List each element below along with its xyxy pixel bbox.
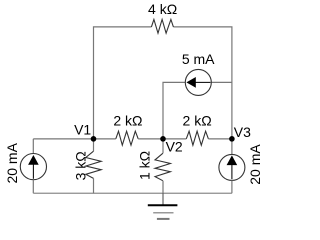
wire middle rail right segment (R 2k to V3) xyxy=(208,138,232,140)
wire right branch (V3 to right source) xyxy=(231,139,233,155)
ground symbol xyxy=(148,204,178,206)
current source I 5mA arrow (pointing left) xyxy=(195,81,211,83)
svg-text:V3: V3 xyxy=(234,124,251,140)
current source I 20mA right circle xyxy=(219,154,245,180)
resistor R 1k stub bottom xyxy=(162,181,164,194)
svg-text:1 kΩ: 1 kΩ xyxy=(137,151,153,180)
resistor R 4k (top) xyxy=(151,19,173,33)
current source I 20mA left arrow (pointing up) xyxy=(32,164,34,179)
wire right branch bottom (source to bottom rail) xyxy=(231,180,233,193)
node V1 junction dot xyxy=(91,136,97,142)
resistor R 2k (right, V2-V3) xyxy=(186,131,208,145)
wire 5 mA branch (V2 up and over to right rail) xyxy=(163,82,232,138)
node V3 junction dot xyxy=(229,136,235,142)
svg-text:2 kΩ: 2 kΩ xyxy=(183,113,212,129)
svg-text:5 mA: 5 mA xyxy=(182,51,215,67)
svg-text:20 mA: 20 mA xyxy=(4,142,20,183)
wire left branch bottom (source to bottom rail) xyxy=(32,180,34,194)
svg-text:3 kΩ: 3 kΩ xyxy=(73,151,89,180)
svg-text:V2: V2 xyxy=(166,139,183,155)
current source I 20mA right arrow (pointing up) xyxy=(231,164,233,179)
svg-text:4 kΩ: 4 kΩ xyxy=(148,1,177,17)
resistor R 2k (left, V1-V2) xyxy=(116,131,138,145)
wire bottom rail xyxy=(33,192,232,194)
wire middle rail center segment (R 2k to V2 to R 2k) xyxy=(138,138,186,140)
svg-text:2 kΩ: 2 kΩ xyxy=(113,113,142,129)
node V2 junction dot xyxy=(160,136,166,142)
ground stub xyxy=(162,193,164,205)
resistor R 3k (vertical below V1) xyxy=(86,151,101,178)
current source I 20mA left circle xyxy=(20,154,46,180)
wire top rail right segment with right vertical (V3 column) xyxy=(173,27,232,139)
svg-text:V1: V1 xyxy=(74,121,91,137)
wire top rail left segment with left vertical (V1 column) xyxy=(94,27,152,139)
resistor R 3k stub top xyxy=(93,139,95,151)
wire middle rail left segment (left source to V1 to R 2k) xyxy=(33,138,116,140)
resistor R 1k (vertical below V2) xyxy=(155,153,170,180)
resistor R 3k stub bottom xyxy=(93,178,95,193)
current source I 5mA circle xyxy=(185,69,211,95)
resistor R 1k stub top xyxy=(162,139,164,153)
svg-text:20 mA: 20 mA xyxy=(247,144,263,185)
wire left branch top (to left source) xyxy=(32,139,34,154)
